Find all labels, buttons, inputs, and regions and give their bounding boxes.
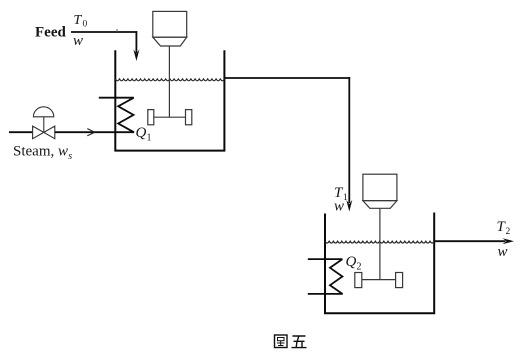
wire steam pipe left segment: [9, 131, 33, 133]
water surface tank 2: [325, 241, 434, 243]
arrow feed into tank 1: [133, 49, 139, 61]
stirrer shaft tank 2: [379, 208, 381, 279]
wire steam pipe right segment to coil: [55, 131, 134, 133]
stirrer blade right tank 1: [186, 110, 192, 125]
stirrer blade left tank 2: [355, 273, 362, 288]
wire product outlet tank 2: [434, 240, 505, 242]
wire outlet pipe vertical down to tank 2: [348, 77, 350, 203]
water surface tank 1: [115, 79, 224, 81]
stirrer cross-bar tank 2: [358, 279, 399, 281]
svg-text:Feed: Feed: [35, 25, 66, 41]
motor M2 housing: [363, 174, 397, 208]
svg-text:w: w: [334, 199, 344, 215]
stirrer shaft tank 1: [168, 46, 170, 117]
wire feed horizontal pipe: [71, 31, 137, 33]
arrow into tank 2: [346, 200, 352, 212]
svg-text:0: 0: [83, 20, 88, 30]
arrow product outlet: [502, 238, 514, 244]
svg-text:s: s: [68, 151, 72, 162]
heating coil Q2 zigzag: [330, 259, 342, 294]
arrow steam flow: [87, 129, 95, 136]
svg-text:w: w: [498, 244, 508, 260]
svg-text:T: T: [74, 13, 83, 28]
heating coil Q1 top lead: [99, 97, 134, 99]
tank 1 walls: [115, 50, 224, 150]
svg-text:Steam, w: Steam, w: [13, 144, 68, 160]
valve stem: [43, 117, 45, 133]
control valve body: [33, 126, 55, 139]
wire feed vertical pipe into tank 1: [135, 31, 137, 53]
stirrer cross-bar tank 1: [151, 116, 188, 118]
junction tick on feed pipe: [116, 29, 118, 32]
heating coil Q2 bottom lead: [308, 293, 343, 295]
svg-text:2: 2: [506, 227, 511, 237]
stirrer blade right tank 2: [396, 273, 403, 288]
stirrer blade left tank 1: [148, 110, 154, 125]
caption character Wu (five): [292, 336, 307, 348]
svg-text:Q: Q: [346, 254, 357, 270]
svg-text:2: 2: [357, 262, 362, 273]
motor M1 housing: [153, 11, 187, 46]
caption character Tu (figure): [275, 335, 288, 348]
svg-text:Q: Q: [136, 125, 147, 141]
valve actuator dome: [33, 107, 53, 117]
heating coil Q1 zigzag: [118, 98, 134, 133]
tank 2 walls: [325, 213, 434, 314]
wire outlet pipe tank1 horizontal: [224, 77, 350, 79]
heating coil Q2 top lead: [308, 258, 343, 260]
svg-text:w: w: [73, 33, 83, 49]
svg-text:1: 1: [147, 133, 152, 144]
